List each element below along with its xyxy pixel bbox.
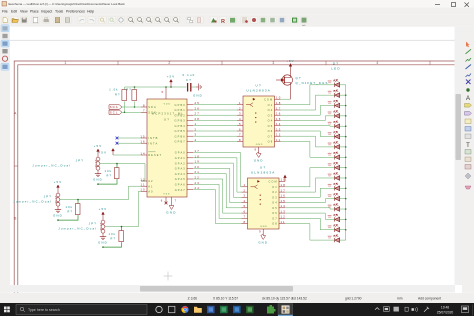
svg-text:D?: D? — [333, 62, 339, 66]
svg-text:O3: O3 — [272, 195, 278, 199]
pin I1 — [237, 104, 243, 106]
svg-text:Q_NJFET_DGS: Q_NJFET_DGS — [296, 81, 329, 85]
pin I8 — [237, 140, 243, 142]
wire GPA1 to U3 I2 — [193, 158, 242, 192]
pin COM — [279, 180, 285, 182]
pin RESET U1 — [141, 154, 147, 156]
wire LED12 to bus — [340, 198, 346, 200]
op-amp U1 MCP23017_ML body — [147, 99, 187, 197]
resistor R jp3 — [119, 231, 124, 242]
svg-text:SCK: SCK — [148, 111, 157, 115]
power +5V at U3 COM — [284, 175, 286, 181]
svg-text:GPB5: GPB5 — [175, 129, 186, 133]
frame zone ticks — [14, 61, 430, 166]
svg-text:RESET: RESET — [148, 153, 162, 157]
wire LED14 to bus — [340, 218, 346, 220]
svg-text:GND: GND — [53, 214, 63, 218]
svg-text:GPA0: GPA0 — [175, 151, 186, 155]
svg-text:GPB2: GPB2 — [175, 113, 186, 117]
svg-text:GND: GND — [93, 178, 103, 182]
svg-text:O7: O7 — [272, 216, 278, 220]
ground below jumper — [100, 237, 106, 240]
svg-text:2: 2 — [244, 189, 247, 193]
power +5V at RESET — [112, 149, 115, 156]
wire GPA4 to U3 I5 — [193, 174, 242, 208]
wire GPA2 to U3 I3 — [193, 163, 242, 197]
resistor R jp2 — [75, 204, 80, 215]
window controls — [435, 3, 469, 7]
svg-text:Z 3.66: Z 3.66 — [188, 297, 198, 301]
LED D15 — [334, 225, 340, 233]
svg-text:5: 5 — [244, 204, 247, 208]
jumper JP Jumper_NC_Dual — [97, 156, 99, 158]
pin O8 — [279, 223, 285, 225]
svg-text:2: 2 — [168, 61, 171, 65]
wire LED8 to bus — [340, 156, 346, 158]
pin GPB7 U1 — [187, 140, 193, 142]
svg-text:Type here to search: Type here to search — [28, 308, 60, 312]
svg-text:GPB1: GPB1 — [175, 108, 186, 112]
pin I3 — [237, 114, 243, 116]
LED D12 — [334, 193, 340, 201]
svg-text:O6: O6 — [272, 211, 278, 215]
pin GPA0 U1 — [187, 152, 193, 154]
jumper JP Jumper_NC_Dual — [57, 192, 59, 194]
wire LED11 to bus — [340, 187, 346, 189]
wire LED4 to bus — [340, 115, 346, 117]
pin O6 — [279, 212, 285, 214]
svg-text:8: 8 — [143, 103, 146, 107]
pin I3 — [242, 196, 248, 198]
LED D3 — [334, 100, 340, 108]
svg-text:GND: GND — [254, 159, 264, 163]
svg-text:3: 3 — [244, 194, 247, 198]
wire U2 O6 to LED6 — [281, 131, 335, 137]
right toolbar strip — [462, 27, 474, 293]
pin O8 — [275, 140, 281, 142]
wire GPB2 to U2 I3 — [193, 114, 237, 116]
svg-text:GPA6: GPA6 — [175, 183, 186, 187]
power +5V above U1 — [170, 80, 173, 88]
pin I7 — [242, 217, 248, 219]
wire LED7 to bus — [340, 146, 346, 148]
IC ULN2803A body — [243, 96, 275, 147]
svg-text:dx 85.10 dy 115.57 dist 143.52: dx 85.10 dy 115.57 dist 143.52 — [262, 297, 307, 301]
svg-text:+5V: +5V — [94, 144, 103, 148]
pin VSS bottom — [166, 197, 172, 203]
wire GPA0 to U3 I1 — [193, 153, 242, 187]
LED D7 — [334, 142, 340, 150]
svg-text:VSS: VSS — [163, 194, 170, 196]
svg-text:8: 8 — [244, 220, 247, 224]
svg-text:O2: O2 — [268, 108, 274, 112]
svg-text:O5: O5 — [268, 124, 274, 128]
pin SCK U1 — [141, 111, 147, 113]
svg-text:GPA1: GPA1 — [175, 156, 186, 160]
wire U3 O7 to LED15 — [285, 218, 335, 229]
LED D2 — [334, 90, 340, 98]
svg-text:10: 10 — [140, 188, 145, 192]
taskbar — [0, 303, 474, 316]
pin A0 U1 — [141, 190, 147, 192]
svg-text:U?: U? — [256, 84, 262, 88]
svg-text:0.1uF: 0.1uF — [182, 73, 195, 77]
svg-text:R?: R? — [68, 210, 74, 214]
title bar — [0, 0, 474, 8]
LED D5 — [334, 121, 340, 128]
pin GPB6 U1 — [187, 135, 193, 137]
wire LED16 to bus — [340, 239, 346, 241]
svg-text:7: 7 — [244, 215, 247, 219]
resistor R pullup at x=134.5 — [132, 90, 137, 101]
svg-text:1.0k: 1.0k — [109, 88, 118, 92]
svg-text:4: 4 — [244, 199, 247, 203]
pin GPA6 U1 — [187, 183, 193, 185]
wire GPB0 to U2 I1 — [193, 104, 237, 106]
svg-text:2: 2 — [239, 106, 242, 110]
resistor R pullup at x=124.5 — [122, 90, 127, 101]
svg-text:10: 10 — [276, 96, 281, 100]
global label SDA — [109, 105, 122, 109]
LED D1 — [334, 80, 340, 88]
wire U2 O5 to LED5 — [281, 125, 335, 128]
top toolbar — [0, 14, 474, 26]
wire U2 COM to Q1 source — [281, 98, 291, 100]
LED D9 — [334, 162, 340, 170]
wire LED13 to bus — [340, 208, 346, 210]
wire U2 O2 to LED2 — [281, 95, 335, 110]
ground below ULN — [261, 234, 266, 240]
pin GPA2 U1 — [187, 162, 193, 164]
svg-text:10k: 10k — [66, 205, 73, 209]
svg-text:15: 15 — [140, 134, 145, 138]
wire LED9 to bus — [340, 167, 346, 169]
LED D6 — [334, 131, 340, 139]
sheet frame outer border — [14, 61, 462, 293]
svg-text:4: 4 — [239, 117, 242, 121]
no-connect X — [116, 137, 119, 140]
wire resistor bottoms to SDA/SCL — [124, 102, 126, 113]
pin O1 — [279, 186, 285, 188]
LED D16 — [334, 235, 340, 243]
cursor crosshair — [164, 272, 173, 281]
svg-text:GND: GND — [258, 241, 268, 245]
svg-text:U?: U? — [260, 166, 266, 170]
wire LED6 to bus — [340, 136, 346, 138]
svg-text:T: T — [466, 143, 470, 149]
wire U3 O2 to LED10 — [285, 178, 335, 192]
svg-text:GPA2: GPA2 — [175, 161, 186, 165]
wire RESET to +5V — [113, 154, 141, 156]
status bar — [0, 293, 474, 304]
power +5V at Q1 drain — [289, 64, 291, 69]
svg-text:INTB: INTB — [148, 136, 158, 140]
svg-text:Q?: Q? — [296, 76, 302, 80]
pin I4 — [242, 202, 248, 204]
svg-text:COM: COM — [264, 97, 273, 101]
wire cap to GND — [191, 86, 196, 88]
pin GPA5 U1 — [187, 178, 193, 180]
svg-text:R?: R? — [107, 174, 113, 178]
pin I2 — [242, 191, 248, 193]
svg-text:JP?: JP? — [76, 159, 84, 163]
pin O7 — [275, 135, 281, 137]
svg-text:O3: O3 — [268, 113, 274, 117]
wire GPB7 to U2 I8 — [193, 140, 237, 142]
wire U3 O5 to LED13 — [285, 208, 335, 209]
svg-text:COM: COM — [268, 180, 277, 184]
svg-text:SDA: SDA — [110, 105, 119, 109]
pin GPB5 U1 — [187, 130, 193, 132]
svg-text:16: 16 — [140, 140, 145, 144]
active app (kicad) — [278, 304, 293, 316]
wire U3 O1 to LED9 — [285, 168, 335, 187]
svg-text:7: 7 — [143, 109, 146, 113]
svg-text:GPB7: GPB7 — [175, 140, 186, 144]
LED D14 — [334, 214, 340, 222]
svg-text:4: 4 — [376, 61, 379, 65]
pin I6 — [242, 212, 248, 214]
svg-text:O1: O1 — [272, 185, 278, 189]
svg-text:GPB4: GPB4 — [175, 124, 186, 128]
svg-text:GND: GND — [256, 144, 264, 146]
LED D8 — [334, 152, 340, 160]
svg-text:10k: 10k — [105, 169, 112, 173]
pin O3 — [279, 196, 285, 198]
wire U2 O4 to LED4 — [281, 116, 335, 121]
pin COM — [275, 98, 281, 100]
svg-text:O2: O2 — [272, 190, 278, 194]
svg-text:1: 1 — [244, 183, 247, 187]
svg-text:SDA: SDA — [148, 105, 157, 109]
pin A2 U1 — [141, 180, 147, 182]
vertical scrollbar — [455, 27, 463, 285]
pin GPA7 U1 — [187, 189, 193, 191]
resistor R jp1 — [114, 168, 119, 179]
no-connect X — [116, 142, 119, 145]
svg-text:GND: GND — [166, 211, 176, 215]
svg-text:O5: O5 — [272, 206, 278, 210]
svg-text:SCL: SCL — [110, 110, 119, 114]
pin INTA U1 — [141, 142, 147, 144]
svg-text:Add component: Add component — [418, 297, 441, 301]
wire JP1 mid to A2 — [100, 164, 145, 181]
svg-text:C?: C? — [186, 78, 192, 82]
svg-text:3: 3 — [239, 112, 242, 116]
svg-text:7: 7 — [175, 199, 178, 203]
pin GPA1 U1 — [187, 157, 193, 159]
svg-text:GPA4: GPA4 — [175, 172, 186, 176]
svg-text:GPA3: GPA3 — [175, 167, 186, 171]
pin GND bottom — [262, 229, 264, 234]
svg-text:A0: A0 — [148, 190, 153, 194]
pin O5 — [275, 125, 281, 127]
capacitor C1 0.1uF — [188, 83, 191, 92]
pin GPB0 U1 — [187, 104, 193, 106]
svg-text:JP?: JP? — [89, 222, 97, 226]
LED D10 — [334, 173, 340, 181]
svg-text:Edit: Edit — [11, 10, 17, 14]
pin GPA3 U1 — [187, 167, 193, 169]
wire JP2 mid to A1 — [60, 186, 141, 199]
wire LED3 to bus — [340, 105, 346, 107]
svg-text:1: 1 — [239, 101, 242, 105]
horizontal scrollbar — [10, 285, 455, 293]
wire GPB6 to U2 I7 — [193, 135, 237, 137]
svg-text:GPB0: GPB0 — [175, 103, 186, 107]
svg-text:11: 11 — [281, 220, 286, 224]
pin I5 — [237, 125, 243, 127]
svg-text:5: 5 — [161, 90, 164, 94]
wire LED cathode bus — [345, 85, 347, 240]
svg-text:Jumper_NC_Dual: Jumper_NC_Dual — [13, 200, 52, 204]
svg-text:LED: LED — [331, 67, 341, 71]
pin GND bottom — [258, 147, 260, 152]
wire LED2 to bus — [340, 94, 346, 96]
svg-text:6: 6 — [239, 127, 242, 131]
global label SCL — [109, 110, 122, 114]
pin O4 — [275, 120, 281, 122]
menu bar — [0, 8, 474, 15]
pin GPB3 U1 — [187, 120, 193, 122]
svg-text:JP?: JP? — [44, 195, 52, 199]
pin I4 — [237, 120, 243, 122]
svg-text:GND: GND — [260, 226, 268, 228]
svg-text:ULN2803A: ULN2803A — [246, 89, 271, 93]
pin A1 U1 — [141, 185, 147, 187]
wire U2 O8 to LED8 — [281, 141, 335, 157]
ground right of capacitor — [196, 84, 202, 91]
svg-text:GPB6: GPB6 — [175, 134, 186, 138]
wire U3 O4 to LED12 — [285, 199, 335, 203]
wire GPB5 to U2 I6 — [193, 130, 237, 132]
svg-text:GPB3: GPB3 — [175, 119, 186, 123]
svg-text:Eeschema — LedDriver.sch [/] —: Eeschema — LedDriver.sch [/] — C:\Users\… — [9, 2, 126, 6]
pin INTB U1 — [141, 137, 147, 139]
svg-text:11: 11 — [276, 138, 281, 142]
pin O2 — [279, 191, 285, 193]
green app icon — [267, 305, 276, 314]
svg-text:3: 3 — [272, 61, 275, 65]
pin SDA U1 — [141, 106, 147, 108]
svg-text:11: 11 — [141, 183, 146, 187]
svg-text:A2: A2 — [148, 179, 153, 183]
svg-text:ULN2803A: ULN2803A — [251, 171, 276, 175]
wire U2 O7 to LED7 — [281, 136, 335, 147]
svg-text:View: View — [20, 10, 28, 14]
page top edge — [10, 39, 462, 41]
svg-text:bck: bck — [302, 25, 305, 27]
svg-text:Tools: Tools — [55, 10, 63, 14]
svg-text:mm: mm — [397, 297, 403, 301]
wire GPA7 to U3 I8 — [193, 190, 242, 224]
svg-text:14: 14 — [140, 151, 145, 155]
svg-text:Preferences: Preferences — [66, 10, 85, 14]
pin O2 — [275, 109, 281, 111]
svg-text:A: A — [466, 96, 470, 102]
IC ULN2803A body — [248, 178, 280, 229]
svg-text:6: 6 — [161, 199, 164, 203]
left toolbar strip — [0, 27, 10, 293]
svg-text:O8: O8 — [268, 140, 274, 144]
svg-text:R?: R? — [115, 93, 121, 97]
pin VDD top — [165, 87, 167, 99]
transistor Q1 Q_NJFET_DGS — [276, 69, 292, 100]
svg-text:GPA5: GPA5 — [175, 177, 186, 181]
wire U2 O3 to LED3 — [281, 106, 335, 116]
wire U3 O8 to LED16 — [285, 224, 335, 240]
svg-text:R: R — [221, 19, 225, 25]
svg-text:9: 9 — [259, 230, 262, 234]
LED D11 — [334, 183, 340, 191]
power +5V above jumper — [97, 149, 100, 156]
svg-text:10k: 10k — [109, 232, 116, 236]
pin I1 — [242, 186, 248, 188]
svg-text:File: File — [2, 10, 8, 14]
svg-text:O7: O7 — [268, 134, 274, 138]
ground below ULN — [256, 152, 261, 158]
pin GPB1 U1 — [187, 109, 193, 111]
pin O7 — [279, 217, 285, 219]
svg-text:A1: A1 — [148, 184, 153, 188]
svg-text:O1: O1 — [268, 103, 274, 107]
svg-text:25/07/2020: 25/07/2020 — [437, 310, 454, 314]
pin O4 — [279, 202, 285, 204]
wire LED5 to bus — [340, 125, 346, 127]
wire U3 O3 to LED11 — [285, 188, 335, 197]
wire +5V rail to VDD and cap — [125, 87, 187, 90]
svg-text:GND: GND — [98, 241, 108, 245]
pin O1 — [275, 104, 281, 106]
svg-text:O8: O8 — [272, 222, 278, 226]
ground below jumper — [95, 174, 101, 177]
LED D13 — [334, 204, 340, 212]
pin O6 — [275, 130, 281, 132]
ground below jumper — [55, 210, 61, 213]
pin O3 — [275, 114, 281, 116]
wire LED15 to bus — [340, 229, 346, 231]
pin I2 — [237, 109, 243, 111]
svg-text:+5V: +5V — [99, 207, 108, 211]
wire JP3 mid to A0 — [105, 191, 141, 226]
svg-text:O4: O4 — [268, 119, 274, 123]
svg-text:INTA: INTA — [148, 141, 158, 145]
pin GPA4 U1 — [187, 173, 193, 175]
svg-text:A: A — [14, 112, 18, 116]
wire LED1 to bus — [340, 84, 346, 86]
svg-text:O6: O6 — [268, 129, 274, 133]
no-connect X on VSS2 pin — [165, 202, 168, 205]
jumper JP Jumper_NC_Dual — [102, 219, 104, 221]
svg-text:+5V: +5V — [287, 59, 295, 63]
wire GPA5 to U3 I6 — [193, 179, 242, 213]
wire U3 O6 to LED14 — [285, 213, 335, 219]
wire SCL to U1 — [122, 111, 141, 113]
pin O5 — [279, 207, 285, 209]
svg-text:+5V: +5V — [54, 180, 63, 184]
wire U2 O1 to LED1 — [281, 85, 335, 105]
wire GPA6 to U3 I7 — [193, 184, 242, 218]
wire GPB1 to U2 I2 — [193, 109, 237, 111]
search box — [16, 305, 147, 315]
svg-text:B: B — [14, 217, 18, 221]
sheet frame inner border — [18, 65, 462, 293]
svg-text:GPA7: GPA7 — [175, 188, 186, 192]
svg-text:1: 1 — [64, 61, 67, 65]
pin GPB4 U1 — [187, 125, 193, 127]
ground GND below U1 — [169, 203, 174, 210]
svg-text:GND: GND — [193, 94, 203, 98]
